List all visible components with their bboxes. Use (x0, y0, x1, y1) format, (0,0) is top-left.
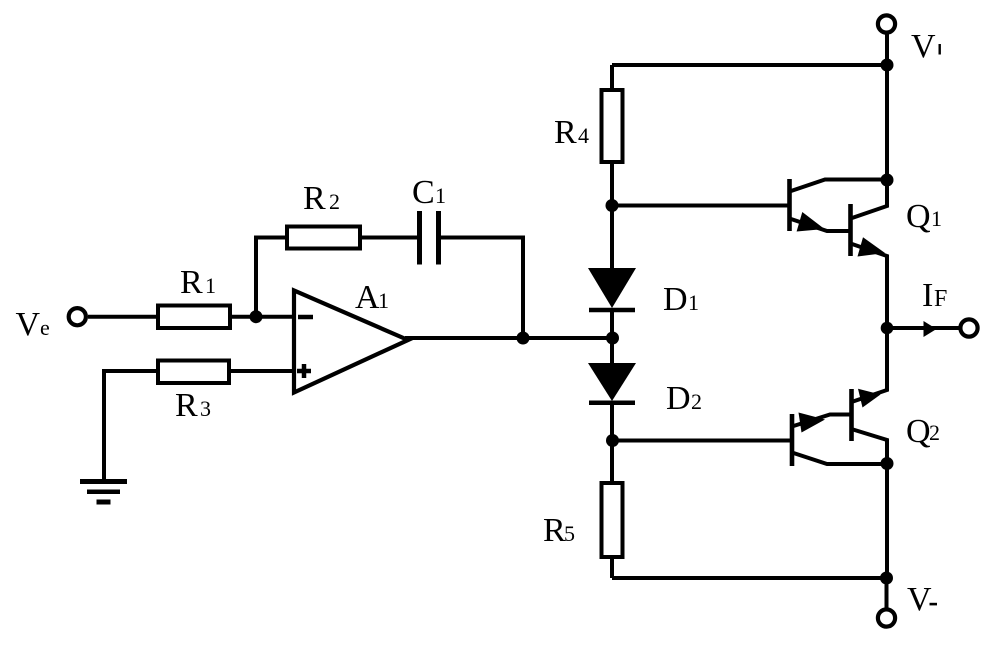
arrow IF (924, 321, 937, 337)
resistor R2 (287, 227, 360, 249)
svg-text:Q: Q (906, 413, 931, 450)
svg-text:F: F (934, 286, 947, 312)
node R4-D1 junction (606, 199, 619, 212)
wire V+ stub (885, 34, 889, 65)
resistor R4 (602, 65, 623, 205)
wire Ve to R1 (88, 315, 159, 319)
svg-text:C: C (412, 174, 435, 211)
svg-text:R: R (175, 387, 198, 424)
op-amp minus input mark (298, 315, 313, 320)
wire IF output (887, 326, 959, 330)
svg-text:R: R (303, 180, 326, 217)
wire C1 to feedback corner (441, 238, 523, 339)
svg-text:D: D (666, 380, 691, 417)
svg-text:2: 2 (691, 389, 702, 414)
node V- junction (880, 572, 893, 585)
terminal IF (960, 319, 977, 336)
svg-text:V: V (911, 28, 936, 65)
wire R3 to non-inverting input (229, 369, 294, 373)
node feedback output junction (517, 332, 530, 345)
svg-text:2: 2 (929, 420, 940, 445)
op-amp plus input mark (297, 364, 311, 378)
label R5 (543, 512, 575, 549)
wire V+ rail down (885, 65, 889, 180)
node V+ junction (881, 59, 894, 72)
label R3 (175, 387, 211, 424)
label IF (922, 277, 947, 314)
svg-text:V: V (907, 581, 932, 618)
wire op-amp output (405, 336, 612, 340)
label Ve (16, 306, 50, 343)
label R1 (180, 264, 216, 301)
wire Q2 base (612, 439, 790, 443)
terminal V- (878, 609, 895, 626)
diode D2 (588, 338, 636, 441)
label Q2 (906, 413, 940, 450)
label R4 (554, 114, 589, 151)
node inverting input junction (250, 310, 263, 323)
terminal Ve (69, 308, 86, 325)
wire R1 to inverting input (230, 315, 296, 319)
wire bottom rail (612, 576, 887, 580)
svg-text:1: 1 (688, 290, 699, 315)
wire tap to R2 (254, 236, 288, 240)
node Q1 collector junction (881, 174, 894, 187)
label D1 (663, 281, 699, 318)
svg-text:1: 1 (205, 273, 216, 298)
svg-text:2: 2 (329, 189, 340, 214)
svg-text:1: 1 (931, 206, 942, 231)
resistor R3 (158, 361, 229, 384)
svg-text:R: R (543, 512, 566, 549)
resistor R1 (158, 306, 230, 329)
svg-text:3: 3 (200, 396, 211, 421)
label A1 (355, 279, 389, 316)
capacitor C1 (420, 211, 439, 265)
node D1-D2 junction (606, 332, 619, 345)
label Q1 (906, 198, 942, 235)
node IF junction (881, 322, 894, 335)
wire R2 to C1 (360, 236, 419, 240)
transistor Q1 (790, 179, 888, 328)
terminal V+ (878, 15, 895, 32)
wire Q1 base (612, 204, 788, 208)
svg-text:5: 5 (564, 521, 575, 546)
wire feedback tap vertical (254, 236, 258, 317)
diode D1 (588, 205, 636, 338)
label V- (907, 581, 937, 618)
label D2 (666, 380, 702, 417)
label V+ (911, 28, 941, 65)
node Q2 collector junction (881, 457, 894, 470)
svg-text:4: 4 (578, 123, 589, 148)
wire ground vertical to R3 (104, 371, 158, 481)
ground (80, 479, 127, 505)
svg-text:V: V (16, 306, 41, 343)
wire top rail (612, 63, 887, 67)
svg-text:e: e (40, 315, 50, 340)
svg-text:D: D (663, 281, 688, 318)
wire V- stub (885, 578, 889, 608)
svg-text:R: R (180, 264, 203, 301)
resistor R5 (602, 441, 623, 578)
transistor Q2 (792, 328, 887, 578)
svg-text:1: 1 (435, 183, 446, 208)
svg-text:1: 1 (378, 288, 389, 313)
svg-text:A: A (355, 279, 380, 316)
label C1 (412, 174, 446, 211)
svg-text:I: I (922, 277, 933, 314)
label R2 (303, 180, 340, 217)
svg-text:R: R (554, 114, 577, 151)
svg-text:Q: Q (906, 198, 931, 235)
op-amp A1 (294, 291, 408, 393)
node D2 cathode junction (606, 434, 619, 447)
